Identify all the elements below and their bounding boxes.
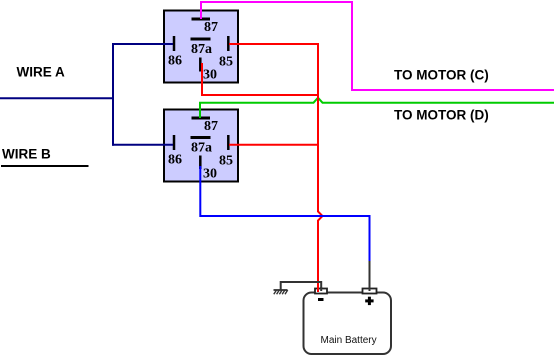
node TO MOTOR (C) label <box>394 68 489 83</box>
relay K2 pin 87a label <box>191 141 212 156</box>
wire navy vertical bus to both relay 86 pins <box>112 43 114 146</box>
wire ground stub into negative terminal <box>320 287 322 291</box>
node WIRE A label <box>17 65 65 80</box>
relay K2 pin 86 label <box>168 153 182 168</box>
relay K1 pin 30 label <box>203 68 217 83</box>
relay K1 pin 87 label <box>204 20 218 35</box>
wire navy WIRE A horizontal feed <box>0 97 114 99</box>
battery positive polarity mark <box>365 297 373 305</box>
wire magenta K1 pin 87 riser <box>200 2 202 19</box>
svg-text:87a: 87a <box>191 141 212 156</box>
wire WIRE B stub (black) <box>1 165 89 167</box>
relay K2 pin 30 terminal bar <box>199 156 202 170</box>
svg-text:WIRE A: WIRE A <box>17 65 65 80</box>
wire magenta top horizontal run <box>200 1 352 3</box>
battery BT1 positive terminal <box>363 289 377 294</box>
relay K2 pin 87a terminal bar <box>191 136 211 139</box>
wire magenta to motor C <box>351 89 554 91</box>
svg-text:87: 87 <box>204 20 218 35</box>
battery negative polarity mark <box>318 298 324 301</box>
wire ground lead from battery negative <box>281 282 322 290</box>
svg-text:30: 30 <box>203 68 217 83</box>
relay K2 pin 87 label <box>204 119 218 134</box>
relay K1 pin 86 terminal bar <box>173 36 176 51</box>
wire positive lead stub into positive terminal <box>369 287 371 291</box>
relay K1 body <box>164 11 238 83</box>
svg-text:WIRE B: WIRE B <box>2 147 51 162</box>
wire navy to K1 pin 86 <box>112 43 173 45</box>
svg-text:87a: 87a <box>191 42 212 57</box>
wire red K1 pin 30 drop <box>202 63 318 95</box>
relay K2 pin 87 terminal bar <box>192 117 211 120</box>
wire red vertical bus to battery negative with hop over blue <box>318 43 323 292</box>
wire green to motor D with hop over red bus <box>199 98 554 103</box>
svg-text:Main Battery: Main Battery <box>321 335 377 346</box>
relay K1 pin 85 terminal bar <box>227 36 230 51</box>
relay K1 pin 87a label <box>191 42 212 57</box>
svg-text:TO MOTOR (C): TO MOTOR (C) <box>394 68 489 83</box>
svg-text:87: 87 <box>204 119 218 134</box>
wire battery positive lead (dark) <box>369 261 371 289</box>
ground symbol <box>274 290 288 294</box>
svg-text:86: 86 <box>168 54 182 69</box>
relay K1 pin 86 label <box>168 54 182 69</box>
relay K2 pin 86 terminal bar <box>173 135 176 150</box>
wire red K2 pin 85 to bus <box>229 144 319 146</box>
svg-text:TO MOTOR (D): TO MOTOR (D) <box>394 108 489 123</box>
battery BT1 negative terminal <box>315 289 327 294</box>
relay K2 pin 85 label <box>219 154 233 169</box>
svg-text:86: 86 <box>168 153 182 168</box>
wire red end into negative terminal <box>317 287 319 292</box>
node WIRE B label <box>2 147 51 162</box>
relay K1 pin 30 terminal bar <box>199 58 202 72</box>
relay K1 pin 85 label <box>219 55 233 70</box>
wire red K1 pin 85 to bus <box>229 43 319 45</box>
svg-text:85: 85 <box>219 55 233 70</box>
wire green K2 pin 87 riser <box>199 102 201 118</box>
svg-text:30: 30 <box>203 167 217 182</box>
wire blue K2 pin 30 to battery positive <box>200 166 369 262</box>
svg-text:85: 85 <box>219 154 233 169</box>
relay K2 pin 30 label <box>203 167 217 182</box>
battery BT1 body <box>304 293 392 355</box>
battery BT1 name label <box>321 335 377 346</box>
relay K1 pin 87 terminal bar <box>192 18 211 21</box>
relay K2 body <box>164 110 238 182</box>
node TO MOTOR (D) label <box>394 108 489 123</box>
relay K2 pin 85 terminal bar <box>227 135 230 150</box>
relay K1 pin 87a terminal bar <box>191 38 211 41</box>
wire navy to K2 pin 86 <box>112 144 173 146</box>
wire magenta vertical drop <box>351 1 353 90</box>
